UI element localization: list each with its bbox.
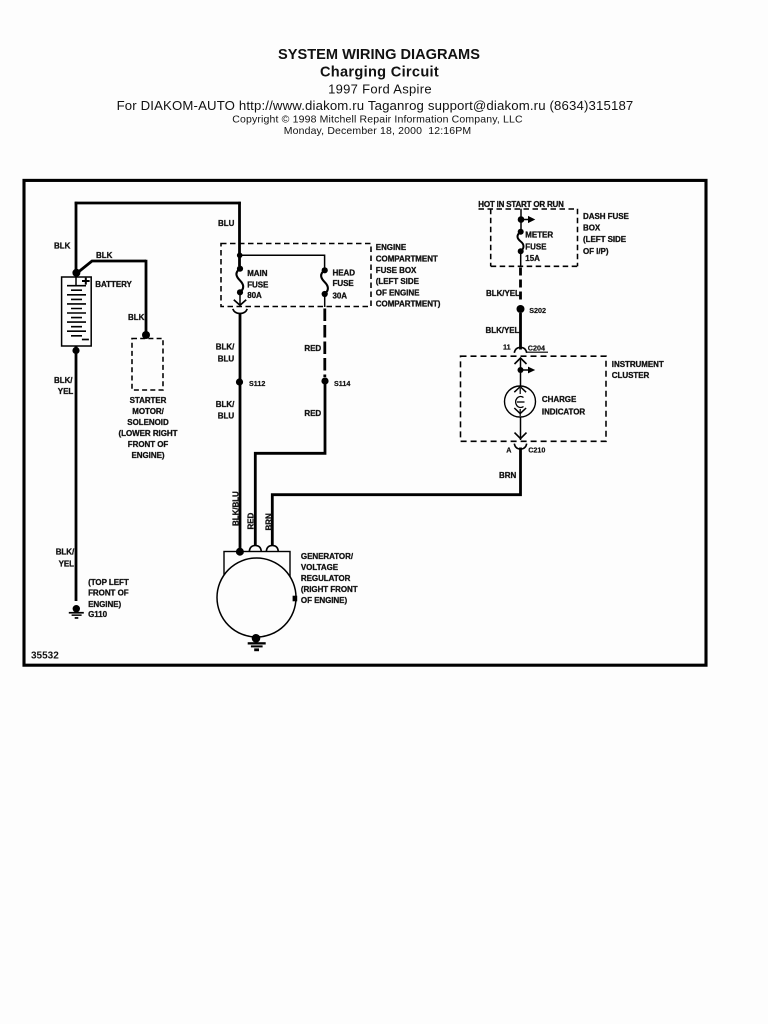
svg-text:OF ENGINE: OF ENGINE (376, 288, 420, 297)
svg-text:RED: RED (304, 344, 321, 353)
svg-text:35532: 35532 (31, 651, 59, 662)
svg-text:C204: C204 (528, 343, 545, 352)
svg-text:BRN: BRN (499, 471, 516, 480)
svg-text:YEL: YEL (59, 560, 75, 569)
svg-text:FUSE: FUSE (525, 242, 547, 251)
svg-text:BLK/YEL: BLK/YEL (486, 326, 520, 335)
svg-text:S202: S202 (529, 306, 546, 315)
svg-text:YEL: YEL (58, 387, 74, 396)
svg-text:GENERATOR/: GENERATOR/ (301, 552, 354, 561)
svg-text:REGULATOR: REGULATOR (301, 574, 351, 583)
svg-text:BRN: BRN (265, 513, 274, 530)
svg-text:BLK/: BLK/ (54, 376, 73, 385)
svg-text:MAIN: MAIN (247, 269, 268, 278)
svg-text:FRONT OF: FRONT OF (128, 440, 169, 449)
svg-text:MOTOR/: MOTOR/ (132, 407, 164, 416)
svg-text:FUSE BOX: FUSE BOX (376, 266, 417, 275)
svg-text:FUSE: FUSE (333, 279, 355, 288)
svg-text:COMPARTMENT: COMPARTMENT (376, 255, 438, 264)
svg-text:BLK/: BLK/ (216, 400, 235, 409)
svg-text:FRONT OF: FRONT OF (88, 588, 129, 597)
svg-text:RED: RED (247, 512, 256, 529)
svg-text:BLK/: BLK/ (216, 343, 235, 352)
svg-text:(TOP LEFT: (TOP LEFT (88, 578, 129, 587)
svg-text:OF ENGINE): OF ENGINE) (301, 596, 348, 605)
svg-text:COMPARTMENT): COMPARTMENT) (376, 300, 441, 309)
svg-text:SOLENOID: SOLENOID (127, 418, 169, 427)
svg-text:BLU: BLU (218, 354, 235, 363)
svg-text:BLK: BLK (128, 313, 145, 322)
svg-text:Charging Circuit: Charging Circuit (320, 65, 439, 81)
svg-text:(LOWER RIGHT: (LOWER RIGHT (119, 429, 178, 438)
svg-text:BLU: BLU (218, 219, 235, 228)
svg-text:For DIAKOM-AUTO http://www.dia: For DIAKOM-AUTO http://www.diakom.ru Tag… (117, 98, 634, 113)
svg-text:G110: G110 (88, 610, 108, 619)
svg-text:15A: 15A (525, 254, 540, 263)
svg-text:CLUSTER: CLUSTER (612, 371, 650, 380)
svg-text:S112: S112 (249, 379, 265, 388)
svg-text:(RIGHT FRONT: (RIGHT FRONT (301, 585, 358, 594)
svg-text:ENGINE: ENGINE (376, 243, 407, 252)
svg-text:BLK: BLK (96, 251, 113, 260)
svg-text:80A: 80A (247, 291, 262, 300)
svg-text:HEAD: HEAD (333, 269, 356, 278)
svg-text:INDICATOR: INDICATOR (542, 408, 586, 417)
svg-text:C210: C210 (528, 445, 545, 454)
svg-text:BLK/BLU: BLK/BLU (232, 491, 241, 526)
svg-text:BLK/YEL: BLK/YEL (486, 289, 520, 298)
svg-text:(LEFT SIDE: (LEFT SIDE (376, 277, 420, 286)
svg-text:BLK/: BLK/ (56, 547, 75, 556)
svg-text:S114: S114 (334, 379, 350, 388)
svg-text:FUSE: FUSE (247, 281, 269, 290)
svg-text:BATTERY: BATTERY (95, 280, 132, 289)
svg-text:1997 Ford Aspire: 1997 Ford Aspire (328, 82, 432, 97)
svg-text:A: A (506, 445, 511, 454)
svg-text:11: 11 (503, 343, 511, 352)
svg-text:VOLTAGE: VOLTAGE (301, 563, 339, 572)
svg-text:RED: RED (304, 409, 321, 418)
svg-text:CHARGE: CHARGE (542, 395, 577, 404)
svg-text:Copyright © 1998 Mitchell Repa: Copyright © 1998 Mitchell Repair Informa… (232, 113, 523, 125)
svg-text:HOT IN START OR RUN: HOT IN START OR RUN (478, 200, 564, 209)
svg-text:DASH FUSE: DASH FUSE (583, 212, 629, 221)
svg-text:SYSTEM WIRING DIAGRAMS: SYSTEM WIRING DIAGRAMS (278, 47, 480, 63)
svg-text:INSTRUMENT: INSTRUMENT (612, 360, 664, 369)
svg-text:BLU: BLU (218, 412, 235, 421)
svg-text:30A: 30A (333, 291, 348, 300)
svg-text:STARTER: STARTER (130, 396, 167, 405)
svg-text:Monday, December 18, 2000 12:: Monday, December 18, 2000 12:16PM (284, 125, 472, 137)
svg-text:OF I/P): OF I/P) (583, 247, 609, 256)
svg-text:(LEFT SIDE: (LEFT SIDE (583, 235, 627, 244)
svg-text:ENGINE): ENGINE) (132, 451, 165, 460)
svg-text:BOX: BOX (583, 224, 601, 233)
svg-text:ENGINE): ENGINE) (88, 600, 121, 609)
svg-text:METER: METER (525, 231, 553, 240)
svg-text:BLK: BLK (54, 241, 71, 250)
